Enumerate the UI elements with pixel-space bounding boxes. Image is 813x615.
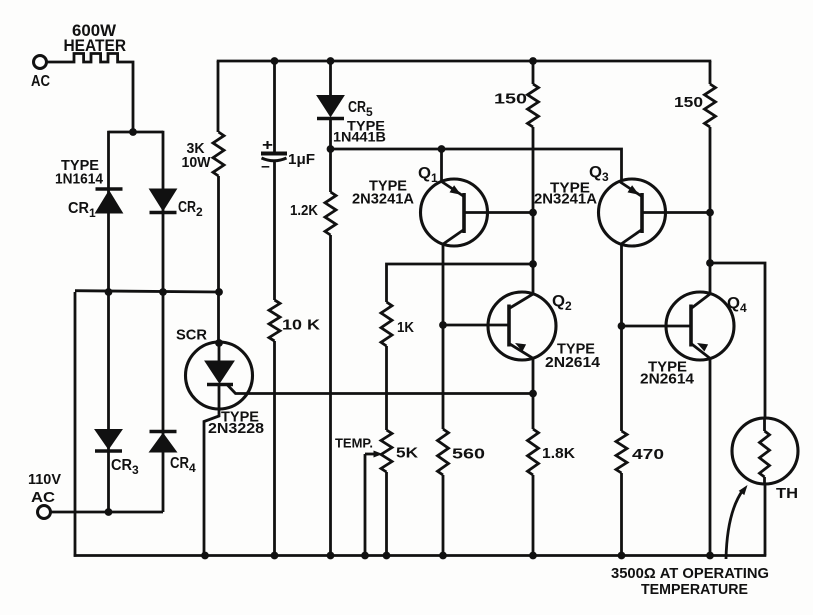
svg-text:2N3228: 2N3228 (208, 420, 264, 437)
svg-text:2N3241A: 2N3241A (534, 191, 597, 208)
svg-text:TEMPERATURE: TEMPERATURE (641, 581, 748, 598)
svg-text:10W: 10W (182, 154, 212, 171)
svg-text:110V: 110V (28, 471, 61, 488)
svg-text:1.8K: 1.8K (542, 445, 575, 462)
svg-text:SCR: SCR (176, 327, 207, 344)
svg-text:2N3241A: 2N3241A (352, 191, 414, 208)
svg-text:HEATER: HEATER (64, 36, 127, 55)
svg-text:TH: TH (776, 485, 798, 502)
svg-text:150: 150 (494, 91, 527, 108)
svg-text:2N2614: 2N2614 (640, 371, 695, 388)
svg-text:+: + (262, 137, 273, 154)
svg-text:1μF: 1μF (288, 151, 315, 168)
svg-text:10 K: 10 K (282, 317, 320, 334)
svg-text:1N1614: 1N1614 (55, 171, 104, 188)
svg-text:1.2K: 1.2K (290, 202, 318, 219)
svg-text:AC: AC (31, 73, 50, 90)
svg-text:2N2614: 2N2614 (545, 354, 601, 371)
svg-text:−: − (261, 159, 270, 175)
svg-text:TEMP.: TEMP. (335, 436, 373, 451)
svg-text:AC: AC (31, 489, 55, 506)
svg-text:560: 560 (452, 446, 485, 463)
svg-text:5K: 5K (396, 445, 418, 462)
svg-text:3500Ω AT OPERATING: 3500Ω AT OPERATING (611, 565, 769, 582)
svg-text:1N441B: 1N441B (333, 129, 386, 145)
svg-text:150: 150 (674, 94, 703, 111)
svg-text:470: 470 (632, 446, 664, 463)
svg-text:1K: 1K (397, 319, 414, 336)
